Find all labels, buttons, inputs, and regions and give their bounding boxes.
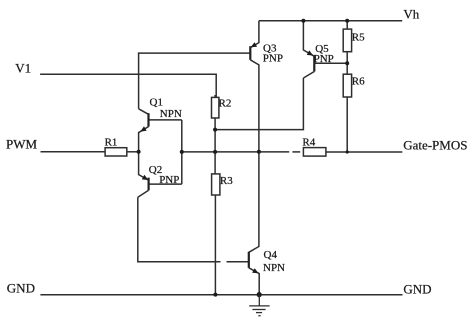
wire node to Q5 collector horizontal (215, 78, 303, 130)
resistor R6 body (343, 74, 351, 97)
wire Q1 collector diagonal (139, 109, 149, 115)
svg-text:R5: R5 (352, 31, 365, 43)
junction dot R2 bottom / line to Q5 (213, 128, 217, 132)
junction dot Vh / Q5 emitter (301, 19, 305, 23)
transistor Q3 base bar (249, 46, 251, 60)
wire Q2 base lead (149, 183, 182, 185)
svg-text:R4: R4 (302, 137, 315, 149)
transistor Q3 emitter arrow (PNP, points into bar) (251, 42, 258, 47)
svg-text:GND: GND (7, 280, 35, 295)
junction dot base tie / R2-R3 node line (180, 150, 184, 154)
wire base tie vertical Q1-Q2 (181, 120, 183, 184)
wire Gate-PMOS line dash segment (292, 151, 300, 153)
transistor Q4 base bar (248, 252, 250, 268)
resistor R4 body (303, 148, 326, 157)
resistor R3 body (212, 174, 220, 195)
node Vh rail wire (259, 20, 402, 22)
wire R5 bottom to R6 top (346, 52, 348, 74)
wire GND rail (40, 294, 402, 296)
wire Q3 emitter riser (250, 21, 259, 48)
junction dot PWM / Q1-Q2 emitters (137, 150, 141, 154)
svg-text:Gate-PMOS: Gate-PMOS (403, 137, 467, 152)
transistor Q1 emitter arrow (NPN, points away) (140, 126, 146, 131)
transistor Q5 base bar (313, 56, 315, 72)
junction dot R2/R3 node on Gate line (213, 150, 217, 154)
wire Q3 collector drop (250, 60, 259, 152)
wire Gate-PMOS line left segment (215, 151, 289, 153)
junction dot Q4 emitter / ground symbol (257, 292, 262, 297)
svg-text:Vh: Vh (403, 7, 419, 22)
transistor Q1 base bar (147, 113, 149, 126)
wire Q2 collector down and across to Q4 base (138, 197, 221, 262)
wire R3 bottom to GND (214, 195, 216, 295)
wire Q4 collector riser (249, 152, 259, 253)
wire Q1 base lead (149, 119, 182, 121)
wire Q5 base lead to R5/R6 node (314, 62, 347, 64)
wire R6 bottom to Gate-PMOS line (346, 97, 348, 152)
transistor Q5 emitter arrow (PNP, points into bar) (307, 50, 314, 55)
wire R1 to Q1/Q2 emitter node (127, 151, 139, 153)
transistor Q4 emitter arrow (NPN, points away) (252, 268, 259, 273)
svg-text:GND: GND (403, 281, 431, 296)
svg-text:R3: R3 (220, 175, 233, 187)
wire R5 top lead from Vh (346, 21, 348, 29)
wire R2 bottom lead to node (214, 118, 216, 152)
junction dot R3 bottom on GND rail (213, 293, 217, 297)
wire base tie to R2/R3 node (182, 151, 215, 153)
wire PWM line left of R1 (41, 151, 106, 153)
svg-text:NPN: NPN (263, 262, 285, 274)
svg-text:PNP: PNP (314, 53, 334, 65)
svg-text:R2: R2 (219, 98, 232, 110)
resistor R1 body (105, 148, 127, 156)
svg-text:V1: V1 (15, 60, 31, 75)
junction dot Vh / R5 top (345, 19, 349, 23)
wire Q4 base segment after gap (227, 261, 249, 263)
wire R2/R3 node to R3 top (214, 152, 216, 174)
svg-text:PNP: PNP (263, 53, 283, 65)
wire Q4 emitter to GND (249, 268, 259, 295)
svg-text:PWM: PWM (6, 137, 38, 152)
svg-text:R6: R6 (352, 76, 365, 88)
wire Q3 base to Q1 collector (net) (139, 53, 251, 109)
resistor R5 body (343, 29, 351, 52)
resistor R2 body (212, 97, 219, 118)
ground symbol (249, 295, 269, 316)
junction dot Q5 base / R5-R6 (345, 61, 349, 65)
wire R2 top lead (214, 95, 216, 97)
transistor Q2 base bar (148, 178, 150, 191)
wire Q5 emitter riser and diagonal (303, 21, 313, 56)
wire V1 line to R2 top (40, 74, 216, 97)
svg-text:NPN: NPN (160, 108, 182, 120)
wire Q2 emitter riser and diagonal (139, 152, 149, 180)
wire Q1 emitter diagonal and riser (139, 127, 149, 152)
svg-text:PNP: PNP (159, 174, 179, 186)
wire Q2 collector diagonal (138, 190, 149, 197)
transistor Q2 emitter arrow (PNP, points into bar) (142, 175, 149, 180)
wire Gate-PMOS line right of R4 (326, 151, 402, 153)
junction dot R6 bottom on Gate line (346, 150, 349, 153)
svg-text:Q4: Q4 (264, 249, 278, 261)
wire Q5 collector diagonal (303, 72, 314, 79)
svg-text:R1: R1 (105, 137, 118, 149)
junction dot Q3/Q4 collectors on Gate line (257, 150, 261, 154)
